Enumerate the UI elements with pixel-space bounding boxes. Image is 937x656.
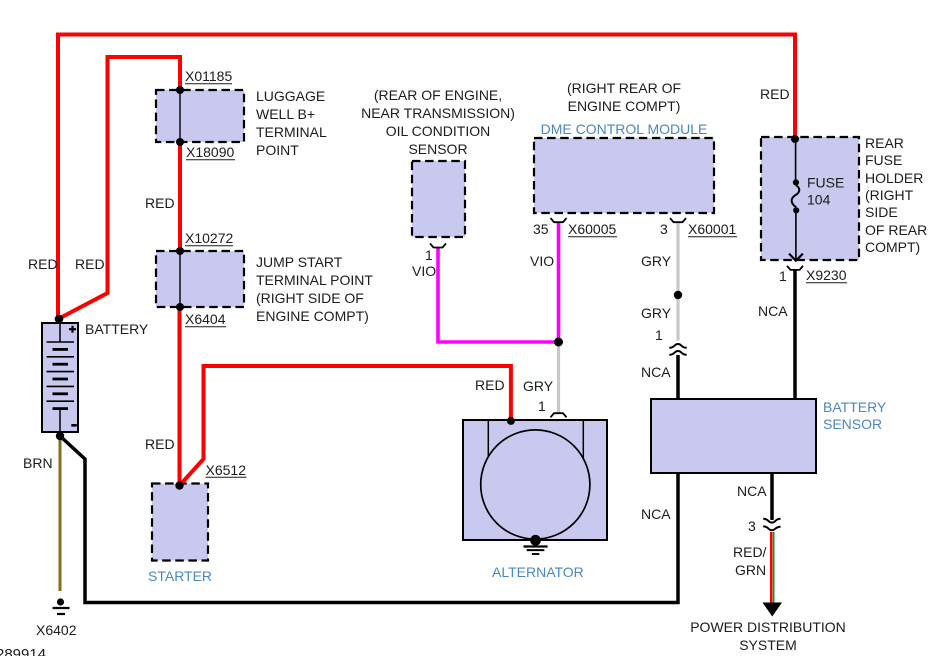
svg-text:RED: RED xyxy=(75,256,105,272)
svg-text:POWER DISTRIBUTION: POWER DISTRIBUTION xyxy=(690,619,846,635)
svg-text:JUMP START: JUMP START xyxy=(256,254,343,270)
svg-text:X6404: X6404 xyxy=(185,311,226,327)
svg-text:ENGINE COMPT): ENGINE COMPT) xyxy=(568,98,681,114)
svg-text:VIO: VIO xyxy=(530,253,554,269)
svg-text:GRY: GRY xyxy=(523,378,554,394)
svg-text:BRN: BRN xyxy=(23,455,53,471)
svg-text:SENSOR: SENSOR xyxy=(408,141,467,157)
svg-text:104: 104 xyxy=(807,192,831,208)
svg-text:35: 35 xyxy=(533,221,549,237)
svg-text:289914: 289914 xyxy=(0,646,46,656)
svg-text:REAR: REAR xyxy=(865,135,904,151)
svg-text:BATTERY: BATTERY xyxy=(85,321,149,337)
svg-text:1: 1 xyxy=(655,327,663,343)
svg-text:RED: RED xyxy=(28,256,58,272)
svg-text:RED: RED xyxy=(475,377,505,393)
svg-text:HOLDER: HOLDER xyxy=(865,170,923,186)
svg-text:COMPT): COMPT) xyxy=(865,239,920,255)
svg-text:SENSOR: SENSOR xyxy=(823,416,882,432)
svg-text:OF REAR: OF REAR xyxy=(865,222,927,238)
svg-text:DME CONTROL MODULE: DME CONTROL MODULE xyxy=(541,121,708,137)
svg-text:BATTERY: BATTERY xyxy=(823,399,887,415)
svg-text:X01185: X01185 xyxy=(185,68,232,84)
svg-text:1: 1 xyxy=(538,398,546,414)
svg-text:LUGGAGE: LUGGAGE xyxy=(256,88,325,104)
svg-text:FUSE: FUSE xyxy=(865,152,902,168)
svg-text:X6512: X6512 xyxy=(206,462,247,478)
svg-text:FUSE: FUSE xyxy=(807,175,844,191)
svg-text:NEAR TRANSMISSION): NEAR TRANSMISSION) xyxy=(361,105,515,121)
svg-text:GRN: GRN xyxy=(735,562,766,578)
svg-text:NCA: NCA xyxy=(641,364,671,380)
svg-text:RED: RED xyxy=(145,195,175,211)
svg-text:OIL CONDITION: OIL CONDITION xyxy=(386,123,491,139)
svg-text:X10272: X10272 xyxy=(185,230,233,246)
svg-text:X9230: X9230 xyxy=(806,267,847,283)
svg-text:RED: RED xyxy=(760,86,790,102)
svg-text:X60005: X60005 xyxy=(568,221,616,237)
svg-text:STARTER: STARTER xyxy=(148,568,212,584)
svg-text:(REAR OF ENGINE,: (REAR OF ENGINE, xyxy=(374,87,502,103)
svg-text:GRY: GRY xyxy=(641,253,672,269)
svg-text:SIDE: SIDE xyxy=(865,204,898,220)
svg-text:RED: RED xyxy=(145,436,175,452)
svg-text:VIO: VIO xyxy=(412,263,436,279)
svg-text:(RIGHT REAR OF: (RIGHT REAR OF xyxy=(567,80,681,96)
svg-text:3: 3 xyxy=(748,518,756,534)
svg-text:TERMINAL: TERMINAL xyxy=(256,124,327,140)
svg-text:RED/: RED/ xyxy=(733,544,767,560)
svg-text:WELL B+: WELL B+ xyxy=(256,106,315,122)
svg-text:ALTERNATOR: ALTERNATOR xyxy=(492,564,584,580)
svg-text:X18090: X18090 xyxy=(186,144,234,160)
svg-text:3: 3 xyxy=(660,221,668,237)
svg-text:NCA: NCA xyxy=(737,483,767,499)
svg-text:(RIGHT SIDE OF: (RIGHT SIDE OF xyxy=(256,290,364,306)
svg-text:ENGINE COMPT): ENGINE COMPT) xyxy=(256,308,369,324)
svg-text:SYSTEM: SYSTEM xyxy=(739,637,797,653)
svg-text:GRY: GRY xyxy=(641,305,672,321)
svg-text:NCA: NCA xyxy=(758,303,788,319)
svg-text:POINT: POINT xyxy=(256,142,299,158)
svg-text:TERMINAL POINT: TERMINAL POINT xyxy=(256,272,373,288)
svg-text:X6402: X6402 xyxy=(36,622,77,638)
svg-text:NCA: NCA xyxy=(641,506,671,522)
svg-text:(RIGHT: (RIGHT xyxy=(865,187,914,203)
svg-text:X60001: X60001 xyxy=(688,221,736,237)
svg-text:1: 1 xyxy=(779,268,787,284)
svg-text:1: 1 xyxy=(425,247,433,263)
